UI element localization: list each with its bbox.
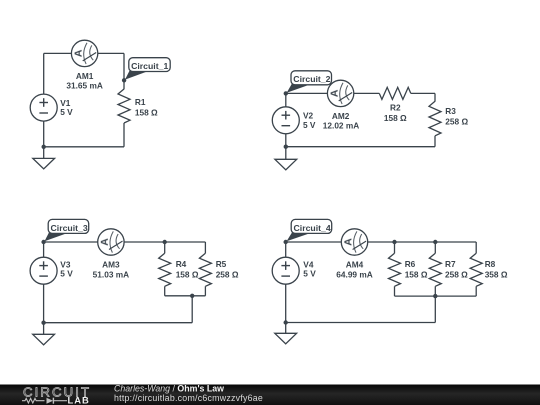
svg-text:LAB: LAB: [68, 395, 90, 405]
node Circuit_3 (net flag callout): [41, 219, 88, 244]
svg-text:258 Ω: 258 Ω: [445, 116, 468, 126]
wire: C2 bottom rail: [286, 146, 435, 148]
wire: C4 AM4 to parallel branch: [368, 241, 477, 243]
svg-text:A: A: [342, 238, 354, 246]
svg-text:A: A: [73, 49, 85, 57]
wire: C2 V2 bottom stub: [285, 134, 287, 147]
wire: C4 drop to bottom rail: [434, 296, 436, 322]
wire: C2 AM2 to R2: [354, 92, 380, 94]
svg-text:5 V: 5 V: [60, 107, 73, 117]
svg-text:AM2: AM2: [332, 111, 350, 121]
wire: C3 top rail (node to AM3): [44, 241, 98, 243]
wire: C2 ground stub: [285, 147, 287, 160]
wire: C4 R6 bottom stub: [394, 286, 396, 296]
node: C2 bottom junction: [284, 145, 288, 149]
svg-text:Circuit_3: Circuit_3: [51, 223, 88, 233]
node: C4 bottom junction: [433, 294, 437, 298]
wire: C4 R6 top stub: [394, 242, 396, 253]
svg-text:AM4: AM4: [346, 259, 364, 269]
wire: C4 R7 top stub: [434, 242, 436, 253]
wire: C2 right vertical below R3: [434, 136, 436, 147]
ammeter AM2: [327, 80, 353, 106]
wire: C4 ground stub: [285, 323, 287, 334]
svg-text:R6: R6: [405, 259, 416, 269]
wire: C1 right vertical above R1: [123, 53, 125, 89]
ground (circuit 1): [33, 158, 55, 169]
resistor R2: [379, 87, 411, 99]
svg-text:R3: R3: [445, 106, 456, 116]
node: C3 bottom junction (R4/R5): [190, 294, 194, 298]
ground (circuit 3): [33, 334, 55, 345]
svg-text:64.99 mA: 64.99 mA: [336, 269, 372, 279]
wire: C3 R4 bottom stub: [164, 286, 166, 296]
svg-text:R7: R7: [445, 259, 456, 269]
wire: C1 left vertical (top rail to V1 +): [43, 53, 45, 94]
node: C4 top junction R7: [433, 240, 437, 244]
wire: C2 R2 to right corner: [411, 92, 435, 94]
voltage source V2: [272, 107, 299, 134]
node: C3 ground junction: [41, 321, 45, 325]
svg-text:5 V: 5 V: [303, 120, 316, 130]
wire: C3 R4 top stub: [164, 242, 166, 253]
wire: C3 V3 bottom stub: [43, 284, 45, 323]
footer bar: [0, 385, 540, 405]
svg-text:AM3: AM3: [102, 259, 120, 269]
resistor R7: [429, 253, 441, 286]
svg-text:AM1: AM1: [76, 71, 94, 81]
wire: C3 V3 top stub: [43, 242, 45, 257]
resistor R1: [118, 89, 130, 123]
voltage source V1: [30, 94, 57, 121]
svg-text:R2: R2: [390, 103, 401, 113]
wire: C3 R5 top stub: [204, 242, 206, 253]
ammeter AM4: [341, 229, 367, 255]
wire: C4 bottom rail: [286, 322, 436, 324]
voltage source V3: [30, 257, 57, 284]
svg-text:R4: R4: [176, 259, 187, 269]
wire: C3 AM3 to parallel branch: [124, 241, 205, 243]
svg-text:258 Ω: 258 Ω: [445, 270, 468, 280]
wire: C4 V4 bottom stub: [285, 284, 287, 322]
wire: C4 R8 bottom stub: [475, 286, 477, 296]
node: C3 top junction (R4/R5): [163, 240, 167, 244]
resistor R5: [199, 253, 211, 286]
svg-text:Circuit_1: Circuit_1: [131, 61, 168, 71]
svg-text:5 V: 5 V: [303, 269, 316, 279]
wire: C4 parallel bottom connector: [395, 295, 477, 297]
node: C1 bottom junction: [42, 145, 46, 149]
svg-text:R5: R5: [216, 259, 227, 269]
wire: C3 R5 bottom stub: [204, 286, 206, 296]
wire: C1 ground stub: [43, 147, 45, 159]
svg-text:258 Ω: 258 Ω: [216, 270, 239, 280]
svg-text:158 Ω: 158 Ω: [176, 270, 199, 280]
wire: C3 parallel bottom connector: [165, 295, 206, 297]
wire: C1 top rail left (V1 top to AM1): [44, 52, 72, 54]
wire: C2 top rail (node to AM2): [286, 92, 328, 94]
svg-text:358 Ω: 358 Ω: [485, 270, 508, 280]
resistor R6: [389, 253, 401, 286]
wire: C2 V2 top stub: [285, 93, 287, 106]
ammeter AM3: [98, 229, 124, 255]
wire: C3 drop to bottom rail: [191, 296, 193, 323]
svg-text:Circuit_4: Circuit_4: [294, 223, 331, 233]
wire: C2 right vertical above R3: [434, 93, 436, 101]
wire: C4 top rail (node to AM4): [286, 241, 342, 243]
svg-text:Circuit_2: Circuit_2: [293, 74, 330, 84]
svg-text:A: A: [329, 89, 341, 97]
svg-text:A: A: [99, 238, 111, 246]
svg-text:158 Ω: 158 Ω: [384, 113, 407, 123]
svg-text:Charles-Wang / Ohm's Law: Charles-Wang / Ohm's Law: [114, 383, 224, 393]
svg-text:158 Ω: 158 Ω: [405, 270, 428, 280]
node: C4 ground junction: [284, 320, 288, 324]
resistor R4: [159, 253, 171, 286]
ground (circuit 2): [275, 159, 297, 170]
svg-text:R1: R1: [135, 97, 146, 107]
ground (circuit 4): [275, 333, 297, 344]
wire: C3 bottom rail: [44, 322, 193, 324]
node Circuit_2 (net flag callout): [284, 71, 332, 96]
wire: C4 R7 bottom stub: [434, 286, 436, 296]
voltage source V4: [272, 257, 299, 284]
node: C4 top junction R6: [392, 240, 396, 244]
resistor R8: [470, 253, 482, 286]
wire: C4 V4 top stub: [285, 242, 287, 257]
wire: C4 R8 top stub: [475, 242, 477, 253]
wire: C1 V1 - to bottom rail: [43, 121, 45, 147]
wire: C1 top rail right (AM1 to R1 branch): [98, 52, 124, 54]
CircuitLab logo: resistor zigzag: [22, 398, 45, 403]
svg-text:R8: R8: [485, 259, 496, 269]
svg-text:158 Ω: 158 Ω: [135, 107, 158, 117]
wire: C1 bottom rail: [44, 146, 124, 148]
node Circuit_4 (net flag callout): [284, 219, 332, 244]
ammeter AM1: [71, 40, 97, 66]
node Circuit_1 (net flag callout): [122, 58, 170, 83]
svg-text:51.03 mA: 51.03 mA: [93, 269, 129, 279]
wire: C3 ground stub: [43, 323, 45, 335]
svg-text:12.02 mA: 12.02 mA: [323, 121, 359, 131]
resistor R3: [429, 101, 441, 136]
svg-text:5 V: 5 V: [60, 269, 73, 279]
wire: C1 right vertical below R1: [123, 123, 125, 147]
svg-text:31.65 mA: 31.65 mA: [66, 81, 102, 91]
CircuitLab logo: diode symbol: [47, 398, 54, 404]
svg-text:http://circuitlab.com/c6cmwzzv: http://circuitlab.com/c6cmwzzvfy6ae: [114, 393, 263, 403]
